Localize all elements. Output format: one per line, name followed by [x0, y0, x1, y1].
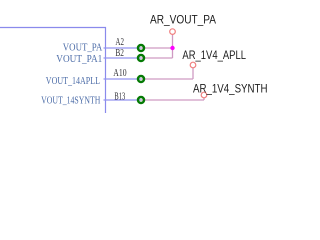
port circle AR_1V4_SYNTH	[201, 92, 207, 98]
pin A10	[104, 78, 142, 80]
wire vertical to AR_VOUT_PA port	[172, 35, 174, 58]
no-connect marker pin B13	[138, 97, 144, 103]
wire from pin B2	[141, 57, 173, 59]
svg-text:A10: A10	[113, 68, 126, 79]
no-connect marker pin A2	[138, 45, 144, 51]
wire from pin B13	[141, 99, 204, 101]
svg-text:VOUT_14APLL: VOUT_14APLL	[46, 76, 100, 87]
svg-text:VOUT_14SYNTH: VOUT_14SYNTH	[41, 96, 101, 107]
pin B13	[104, 99, 142, 101]
svg-text:AR_VOUT_PA: AR_VOUT_PA	[150, 13, 216, 27]
wire from pin A10	[141, 78, 193, 80]
pin A2	[104, 47, 142, 49]
no-connect marker pin B2	[138, 55, 144, 61]
svg-text:A2: A2	[115, 37, 124, 48]
svg-text:B2: B2	[115, 48, 124, 59]
port circle AR_1V4_APLL	[190, 62, 196, 68]
svg-text:VOUT_PA: VOUT_PA	[63, 43, 103, 54]
IC body outline U?	[0, 28, 106, 114]
wire vertical to AR_1V4_APLL port	[192, 68, 194, 79]
svg-text:AR_1V4_SYNTH: AR_1V4_SYNTH	[193, 82, 268, 96]
port circle AR_VOUT_PA	[170, 29, 176, 35]
no-connect marker pin A10	[138, 76, 144, 82]
wire net AR_VOUT_PA horizontal from pin A2	[141, 47, 173, 49]
wire vertical to AR_1V4_SYNTH port	[203, 98, 205, 100]
svg-text:AR_1V4_APLL: AR_1V4_APLL	[182, 48, 246, 62]
svg-text:VOUT_PA1: VOUT_PA1	[56, 54, 102, 65]
svg-text:B13: B13	[114, 91, 125, 102]
junction at A2/B2 net	[170, 46, 174, 50]
pin B2	[104, 57, 142, 59]
